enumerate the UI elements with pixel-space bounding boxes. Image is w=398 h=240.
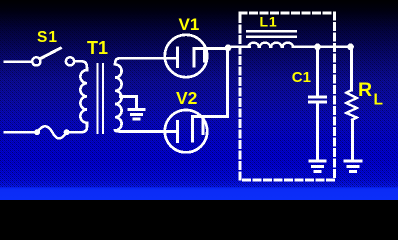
- node: C1 tap: [314, 43, 321, 50]
- transformer T1 secondary winding: [115, 58, 122, 131]
- svg-text:V2: V2: [176, 88, 198, 108]
- tube V2 envelope: [165, 110, 207, 152]
- capacitor C1 plates: [310, 97, 326, 102]
- wire: V1 cathode to B+ rail: [194, 47, 228, 50]
- resistor RL top lead: [350, 47, 353, 90]
- wire: AC input bottom lead: [5, 131, 34, 134]
- svg-text:S1: S1: [37, 29, 58, 46]
- wire: junction to L1: [228, 45, 250, 48]
- tube V2 cathode: [193, 117, 204, 142]
- wire: switch to T1 primary top: [74, 61, 87, 70]
- junction node (rectifier output): [225, 44, 232, 51]
- svg-text:T1: T1: [87, 38, 108, 58]
- resistor RL zigzag: [346, 90, 356, 120]
- wire: AC input top lead: [5, 60, 32, 63]
- AC source sine symbol: [37, 126, 67, 138]
- transformer T1 core: [96, 64, 98, 133]
- inductor L1 core: [247, 30, 296, 32]
- wire: secondary center tap: [121, 97, 137, 108]
- ground (RL): [345, 161, 361, 171]
- capacitor C1 top lead: [316, 47, 319, 96]
- tube V1 plate: [176, 48, 179, 67]
- wire: secondary top to V1 plate: [120, 57, 177, 60]
- svg-text:R: R: [358, 79, 372, 101]
- wire: L1 to C1 node: [293, 45, 351, 48]
- wire: T1 primary bottom to AC source: [70, 123, 88, 132]
- node: RL tap: [347, 43, 354, 50]
- ground (C1): [310, 161, 325, 171]
- inductor L1 winding: [249, 43, 293, 47]
- svg-text:L1: L1: [260, 14, 278, 30]
- svg-text:V1: V1: [179, 15, 200, 34]
- ground (center tap): [129, 110, 144, 120]
- tube V1 cathode: [194, 49, 205, 67]
- switch S1 pivot terminal: [32, 57, 40, 65]
- resistor RL bottom lead: [351, 120, 354, 159]
- capacitor C1 bottom lead: [316, 102, 319, 159]
- switch S1 contact terminal: [66, 57, 74, 65]
- tube V1 envelope: [165, 35, 207, 77]
- wire: V2 cathode riser to junction: [193, 49, 228, 117]
- dashed filter box: [240, 13, 335, 180]
- AC source node right: [64, 129, 70, 135]
- svg-text:L: L: [374, 91, 383, 108]
- tube V2 plate: [176, 122, 179, 142]
- AC source node left: [34, 129, 40, 135]
- transformer T1 primary winding: [80, 70, 87, 123]
- svg-text:C1: C1: [292, 69, 311, 86]
- wire: secondary bottom to V2 plate: [120, 130, 176, 133]
- switch S1 blade: [40, 48, 60, 59]
